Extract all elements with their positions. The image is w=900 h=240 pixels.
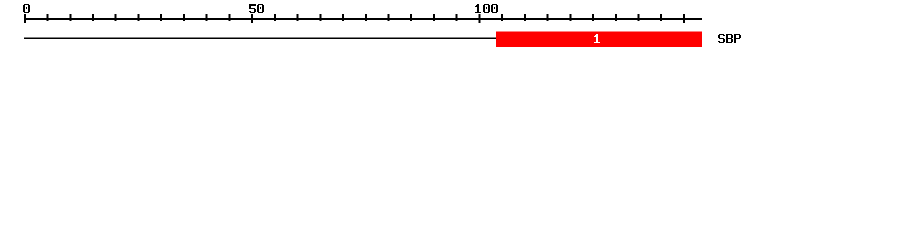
QTL bar chromosome 1: [496, 32, 702, 48]
axis label 50: [249, 4, 264, 13]
bar label 1: [594, 34, 600, 43]
trait label SBP: [718, 34, 741, 43]
axis label 100: [475, 4, 498, 13]
chromosome baseline: [24, 37, 702, 39]
ruler axis line: [24, 18, 702, 20]
ruler major ticks: [24, 14, 685, 23]
ruler minor ticks: [47, 14, 663, 21]
axis label 0: [23, 4, 30, 13]
